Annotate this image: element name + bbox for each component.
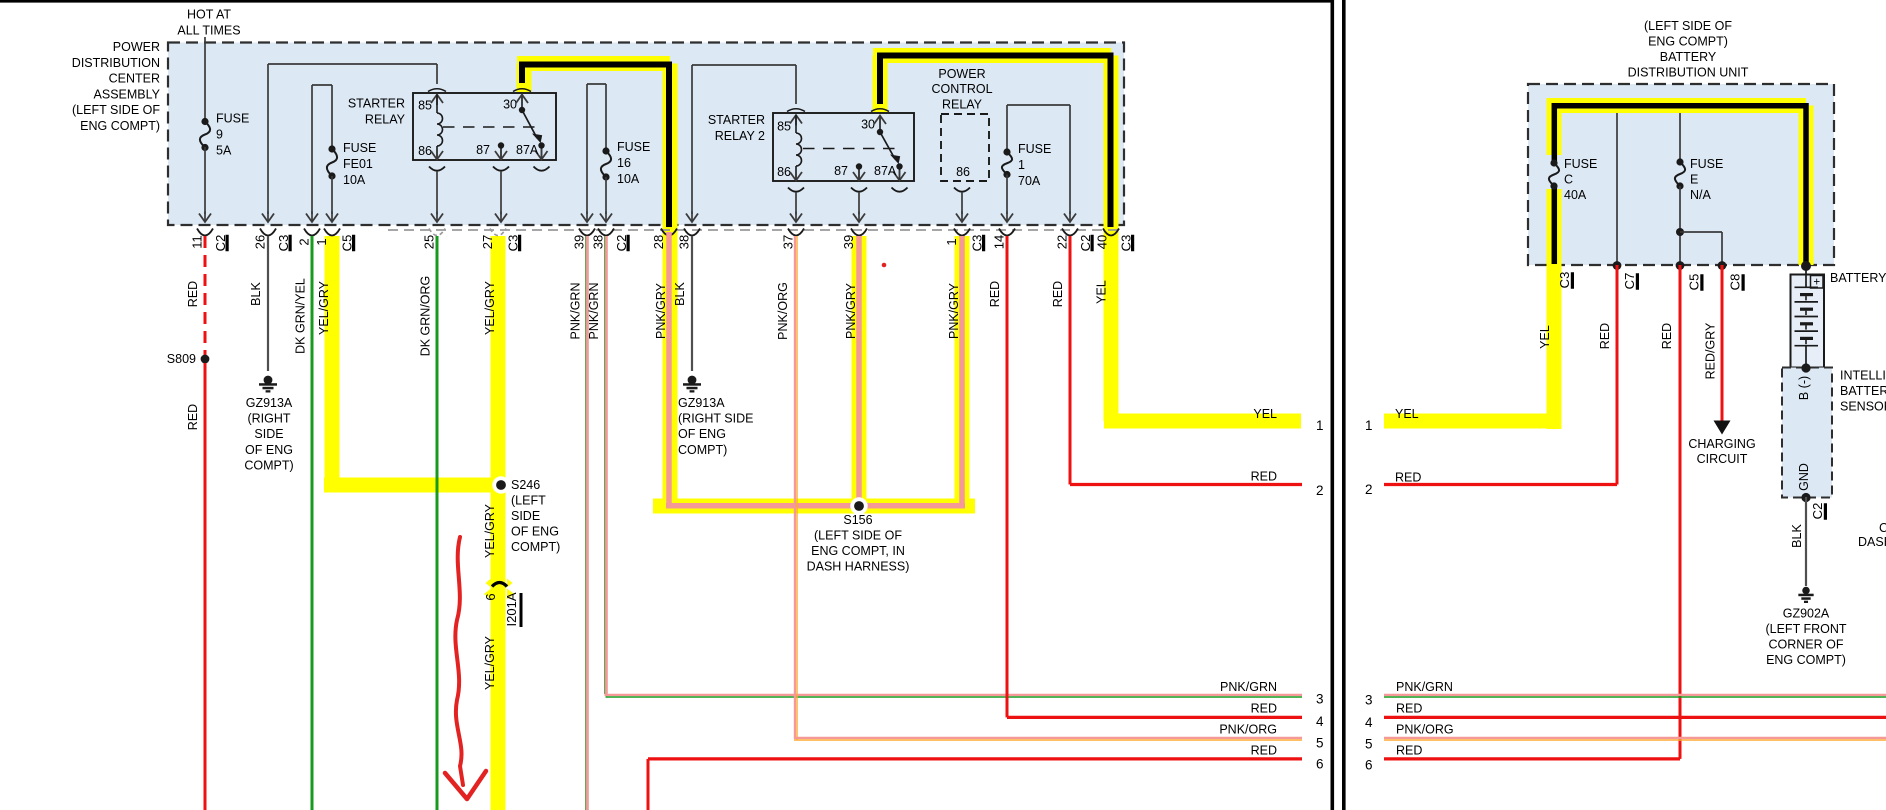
svg-text:3: 3 [1365, 693, 1373, 708]
svg-text:BLK: BLK [673, 282, 687, 306]
svg-text:6: 6 [1365, 758, 1373, 773]
svg-text:(LEFT SIDE OF: (LEFT SIDE OF [72, 103, 160, 117]
svg-text:BATTERY: BATTERY [1660, 50, 1717, 64]
svg-text:YEL/GRY: YEL/GRY [483, 280, 497, 335]
svg-text:ASSEMBLY: ASSEMBLY [94, 87, 161, 101]
svg-text:(LEFT: (LEFT [511, 494, 546, 508]
svg-text:STARTER: STARTER [708, 113, 765, 127]
svg-text:1: 1 [1365, 418, 1373, 433]
svg-text:14: 14 [992, 235, 1007, 249]
svg-text:86: 86 [777, 165, 791, 179]
svg-text:5A: 5A [216, 144, 232, 158]
svg-text:FE01: FE01 [343, 157, 373, 171]
svg-text:22: 22 [1055, 235, 1070, 249]
svg-text:S809: S809 [167, 352, 196, 366]
svg-text:YEL/GRY: YEL/GRY [483, 635, 497, 690]
svg-text:C: C [1564, 173, 1573, 187]
svg-text:30: 30 [503, 98, 517, 112]
svg-text:ENG COMPT): ENG COMPT) [1648, 35, 1728, 49]
svg-text:9: 9 [216, 128, 223, 142]
svg-text:YEL: YEL [1538, 325, 1552, 349]
svg-text:ENG COMPT): ENG COMPT) [1766, 653, 1846, 667]
svg-text:S246: S246 [511, 478, 540, 492]
svg-text:(LEFT SIDE OF: (LEFT SIDE OF [1644, 19, 1732, 33]
svg-text:25: 25 [422, 235, 437, 249]
svg-text:S156: S156 [843, 513, 872, 527]
svg-text:FUSE: FUSE [343, 141, 376, 155]
svg-text:PNK/GRN: PNK/GRN [587, 283, 601, 340]
svg-text:(LEFT SIDE OF: (LEFT SIDE OF [814, 529, 902, 543]
svg-text:2: 2 [1316, 483, 1324, 498]
svg-text:FUSE: FUSE [1564, 157, 1597, 171]
svg-text:39: 39 [841, 235, 856, 249]
svg-text:C2: C2 [1810, 503, 1825, 520]
svg-text:10A: 10A [343, 173, 366, 187]
svg-text:RED: RED [1251, 744, 1277, 758]
svg-text:RED: RED [1251, 702, 1277, 716]
svg-text:PNK/GRY: PNK/GRY [844, 282, 858, 339]
svg-text:COMPT): COMPT) [511, 540, 560, 554]
svg-text:RELAY: RELAY [942, 98, 983, 112]
svg-text:BLK: BLK [1790, 524, 1804, 548]
svg-text:(RIGHT SIDE: (RIGHT SIDE [678, 412, 753, 426]
svg-text:85: 85 [418, 99, 432, 113]
svg-text:COMPT): COMPT) [678, 443, 727, 457]
svg-text:PNK/GRY: PNK/GRY [947, 282, 961, 339]
svg-text:POWER: POWER [113, 40, 160, 54]
svg-text:87: 87 [834, 164, 848, 178]
svg-text:38: 38 [591, 235, 606, 249]
svg-text:E: E [1690, 173, 1698, 187]
svg-text:OF ENG: OF ENG [511, 525, 559, 539]
svg-text:4: 4 [1316, 714, 1324, 729]
svg-text:PNK/ORG: PNK/ORG [776, 282, 790, 340]
svg-text:ALL TIMES: ALL TIMES [177, 24, 240, 38]
svg-text:CORNER OF: CORNER OF [1769, 638, 1844, 652]
svg-text:C7: C7 [1622, 273, 1637, 290]
svg-text:YEL: YEL [1395, 407, 1419, 421]
svg-text:RED: RED [186, 281, 200, 307]
svg-text:YEL: YEL [1095, 280, 1109, 304]
svg-text:27: 27 [480, 235, 495, 249]
svg-text:I201A: I201A [504, 592, 519, 626]
svg-text:CENTER: CENTER [109, 72, 160, 86]
svg-text:DK GRN/YEL: DK GRN/YEL [294, 278, 308, 354]
svg-text:C8: C8 [1728, 274, 1743, 291]
svg-text:COMPT): COMPT) [244, 458, 293, 472]
svg-text:GND: GND [1797, 463, 1811, 491]
svg-text:DASH HARNESS): DASH HARNESS) [1858, 535, 1886, 549]
svg-text:POWER: POWER [938, 67, 985, 81]
svg-text:4: 4 [1365, 715, 1373, 730]
svg-text:BATTERY: BATTERY [1830, 271, 1886, 285]
svg-text:87: 87 [476, 143, 490, 157]
svg-text:1: 1 [1018, 158, 1025, 172]
svg-text:BATTERY: BATTERY [1840, 384, 1886, 398]
svg-text:STARTER: STARTER [348, 97, 405, 111]
svg-text:INTELLIGENT: INTELLIGENT [1840, 369, 1886, 383]
svg-text:30: 30 [861, 118, 875, 132]
svg-text:SIDE: SIDE [511, 509, 540, 523]
svg-text:86: 86 [418, 144, 432, 158]
svg-text:37: 37 [781, 235, 796, 249]
svg-text:PNK/GRN: PNK/GRN [1220, 680, 1277, 694]
svg-text:GZ913A: GZ913A [678, 396, 725, 410]
svg-text:RED: RED [1395, 471, 1421, 485]
svg-text:PNK/GRY: PNK/GRY [654, 282, 668, 339]
svg-text:CIRCUIT: CIRCUIT [1697, 452, 1748, 466]
svg-text:BLK: BLK [249, 282, 263, 306]
svg-text:40A: 40A [1564, 188, 1587, 202]
svg-text:6: 6 [483, 593, 498, 600]
svg-text:FUSE: FUSE [1690, 157, 1723, 171]
svg-text:DISTRIBUTION UNIT: DISTRIBUTION UNIT [1628, 66, 1749, 80]
svg-text:PNK/GRN: PNK/GRN [1396, 680, 1453, 694]
svg-text:2: 2 [1365, 482, 1373, 497]
svg-text:CONTROL: CONTROL [931, 82, 992, 96]
svg-text:YEL/GRY: YEL/GRY [317, 280, 331, 335]
svg-text:ENG COMPT, IN: ENG COMPT, IN [811, 544, 905, 558]
svg-text:RED/GRY: RED/GRY [1704, 322, 1718, 379]
svg-text:1: 1 [1316, 418, 1324, 433]
svg-text:1: 1 [314, 238, 329, 245]
svg-text:RELAY: RELAY [365, 113, 406, 127]
svg-text:OF ENG: OF ENG [245, 443, 293, 457]
svg-text:DASH HARNESS): DASH HARNESS) [807, 560, 910, 574]
svg-text:FUSE: FUSE [1018, 142, 1051, 156]
svg-text:B (-): B (-) [1797, 376, 1811, 400]
svg-text:RED: RED [186, 404, 200, 430]
svg-text:YEL/GRY: YEL/GRY [483, 503, 497, 558]
svg-text:28: 28 [651, 235, 666, 249]
svg-text:5: 5 [1316, 736, 1324, 751]
svg-text:PNK/ORG: PNK/ORG [1219, 723, 1277, 737]
svg-text:26: 26 [253, 235, 268, 249]
svg-text:39: 39 [572, 235, 587, 249]
svg-text:DISTRIBUTION: DISTRIBUTION [72, 56, 160, 70]
svg-text:SIDE: SIDE [254, 427, 283, 441]
svg-text:RED: RED [1251, 470, 1277, 484]
svg-text:C3: C3 [1557, 272, 1572, 289]
svg-text:SENSOR: SENSOR [1840, 400, 1886, 414]
svg-text:3: 3 [1316, 692, 1324, 707]
svg-text:RED: RED [1396, 744, 1422, 758]
svg-text:PNK/ORG: PNK/ORG [1396, 723, 1454, 737]
svg-text:YEL: YEL [1253, 407, 1277, 421]
svg-text:(LEFT FRONT: (LEFT FRONT [1765, 622, 1846, 636]
svg-text:OF ENG: OF ENG [678, 427, 726, 441]
svg-text:RED: RED [1051, 281, 1065, 307]
svg-text:RED: RED [1660, 323, 1674, 349]
svg-text:DK GRN/ORG: DK GRN/ORG [419, 276, 433, 357]
svg-text:HOT AT: HOT AT [187, 8, 231, 22]
svg-text:38: 38 [677, 235, 692, 249]
svg-text:FUSE: FUSE [216, 112, 249, 126]
svg-text:11: 11 [190, 235, 205, 249]
svg-text:CHARGING: CHARGING [1688, 437, 1755, 451]
svg-text:FUSE: FUSE [617, 140, 650, 154]
svg-text:86: 86 [956, 165, 970, 179]
svg-text:C5: C5 [1687, 274, 1702, 291]
svg-text:6: 6 [1316, 757, 1324, 772]
svg-text:2: 2 [297, 238, 312, 245]
svg-text:ENG COMPT): ENG COMPT) [80, 119, 160, 133]
svg-text:C2: C2 [1879, 521, 1886, 535]
svg-text:RED: RED [1396, 702, 1422, 716]
svg-text:70A: 70A [1018, 174, 1041, 188]
svg-text:GZ913A: GZ913A [246, 396, 293, 410]
svg-text:10A: 10A [617, 172, 640, 186]
svg-text:85: 85 [777, 120, 791, 134]
svg-text:5: 5 [1365, 737, 1373, 752]
svg-text:RELAY 2: RELAY 2 [715, 129, 765, 143]
svg-text:87A: 87A [516, 143, 539, 157]
svg-text:(RIGHT: (RIGHT [247, 412, 290, 426]
svg-text:1: 1 [944, 238, 959, 245]
svg-text:PNK/GRN: PNK/GRN [569, 283, 583, 340]
svg-text:N/A: N/A [1690, 188, 1712, 202]
svg-text:RED: RED [988, 281, 1002, 307]
svg-text:87A: 87A [874, 164, 897, 178]
svg-text:RED: RED [1598, 323, 1612, 349]
svg-text:16: 16 [617, 156, 631, 170]
svg-text:40: 40 [1095, 235, 1110, 249]
svg-text:GZ902A: GZ902A [1783, 607, 1830, 621]
